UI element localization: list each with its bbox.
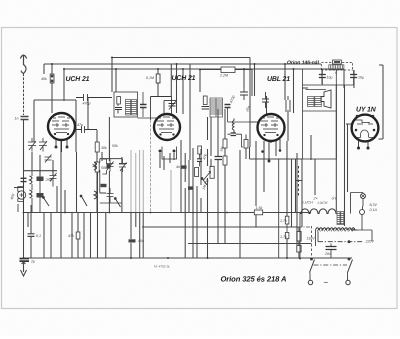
svg-text:UCH 21: UCH 21 [172, 75, 196, 82]
svg-text:UCH 21: UCH 21 [66, 76, 90, 83]
svg-text:UBL 21: UBL 21 [267, 76, 290, 83]
svg-text:Orion 325 és 218 A: Orion 325 és 218 A [221, 275, 287, 284]
svg-text:2,2M: 2,2M [219, 74, 228, 78]
svg-text:1,7k: 1,7k [280, 235, 287, 239]
svg-text:40k: 40k [41, 77, 47, 81]
svg-text:UY 1N: UY 1N [356, 107, 377, 114]
svg-text:1n: 1n [15, 117, 19, 121]
svg-text:470p: 470p [83, 102, 91, 106]
svg-text:220V: 220V [365, 240, 375, 244]
svg-text:25p: 25p [45, 178, 52, 182]
svg-text:20n: 20n [324, 252, 331, 256]
svg-text:6: 6 [335, 71, 337, 75]
svg-text:Orion 146-nál: Orion 146-nál [287, 60, 320, 66]
svg-text:M- 4752 bL: M- 4752 bL [154, 265, 170, 269]
svg-text:0,1M: 0,1M [146, 76, 154, 80]
svg-text:8,3V: 8,3V [370, 203, 378, 207]
svg-text:I.UCH: I.UCH [318, 201, 328, 205]
svg-text:50k: 50k [101, 166, 107, 170]
svg-text:4n: 4n [176, 165, 180, 169]
svg-text:30k: 30k [101, 146, 107, 150]
svg-text:2×: 2× [313, 197, 318, 201]
svg-text:0,1: 0,1 [36, 234, 41, 238]
svg-text:UY: UY [332, 197, 338, 201]
svg-text:10μ: 10μ [327, 76, 333, 80]
svg-text:E.UCH: E.UCH [302, 201, 314, 205]
svg-text:1,7k: 1,7k [280, 219, 287, 223]
svg-text:47k: 47k [68, 234, 74, 238]
svg-text:1,5k: 1,5k [256, 206, 263, 210]
svg-text:47p: 47p [77, 123, 83, 127]
svg-text:40n: 40n [138, 239, 144, 243]
svg-text:10μ: 10μ [358, 76, 364, 80]
svg-text:50k: 50k [112, 144, 118, 148]
svg-text:2μ: 2μ [30, 260, 35, 264]
svg-text:0,1A: 0,1A [370, 208, 378, 212]
svg-text:~: ~ [324, 278, 329, 287]
svg-text:110V: 110V [307, 237, 316, 241]
